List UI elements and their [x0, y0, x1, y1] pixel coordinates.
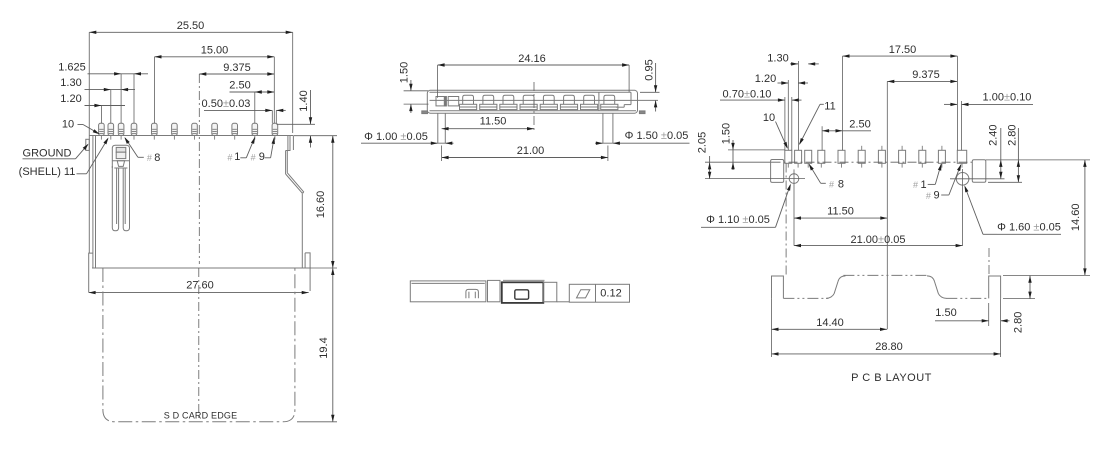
dim 28.80: [772, 298, 1001, 357]
PCB outline bottom-right: [946, 297, 988, 299]
solder pads row (PCB): [785, 146, 967, 168]
hole centerlines (phantom): [786, 164, 989, 277]
svg-text:0.95: 0.95: [643, 59, 655, 80]
svg-text:14.40: 14.40: [816, 317, 844, 329]
svg-text:2.05: 2.05: [696, 132, 708, 153]
dim 1.20 (front): [60, 93, 125, 107]
hole Φ1.10: [705, 169, 805, 245]
hole Φ1.60: [950, 169, 1005, 246]
dim 11.50 (side): [442, 115, 534, 130]
svg-text:19.4: 19.4: [318, 337, 330, 358]
svg-text:1.40: 1.40: [298, 90, 310, 111]
svg-text:21.00: 21.00: [517, 145, 545, 157]
side-view inner wall: [598, 92, 600, 111]
svg-text:9: 9: [259, 151, 265, 163]
svg-text:27.60: 27.60: [186, 280, 214, 292]
dim 2.50 (front): [229, 80, 274, 94]
svg-text:Φ 1.50 ±0.05: Φ 1.50 ±0.05: [625, 130, 689, 142]
svg-text:10: 10: [763, 112, 775, 124]
dim 2.80 (upper): [988, 124, 1022, 182]
PCB outline top edge: [843, 274, 928, 276]
dim 17.50: [843, 44, 958, 58]
label (SHELL) 11: [19, 138, 109, 179]
dim 2.80 (lower): [1003, 276, 1035, 333]
svg-text:(SHELL) 11: (SHELL) 11: [19, 166, 76, 178]
label S D CARD EDGE: [164, 411, 238, 421]
dim 1.20 (PCB): [755, 73, 808, 85]
svg-text:1: 1: [920, 179, 926, 191]
PCB outline right ramp: [927, 276, 947, 299]
svg-text:1.30: 1.30: [60, 77, 81, 89]
svg-text:GROUND: GROUND: [23, 148, 72, 160]
label #1 (PCB): [913, 164, 942, 191]
center line (front view): [198, 74, 201, 420]
label Φ1.60±0.05: [964, 185, 1061, 234]
svg-text:1.50: 1.50: [398, 62, 410, 83]
svg-text:17.50: 17.50: [889, 44, 917, 56]
side-view center line: [533, 82, 535, 132]
svg-text:9: 9: [933, 190, 939, 202]
svg-text:8: 8: [154, 152, 160, 164]
label 10 (front): [62, 118, 100, 134]
svg-text:0.50±0.03: 0.50±0.03: [202, 98, 251, 110]
svg-text:25.50: 25.50: [177, 20, 205, 32]
svg-text:2.80: 2.80: [1012, 312, 1024, 333]
dim 1.50 (side): [398, 62, 428, 113]
section piece (bold): [502, 280, 557, 303]
svg-text:2.80: 2.80: [1007, 124, 1019, 145]
svg-text:16.60: 16.60: [315, 191, 327, 219]
label #8 (PCB): [809, 164, 844, 191]
label Φ1.50±0.05: [595, 130, 690, 145]
svg-text:11.50: 11.50: [480, 115, 507, 127]
dim 19.4: [297, 268, 337, 422]
svg-text:2.50: 2.50: [849, 118, 870, 130]
svg-text:8: 8: [838, 179, 844, 191]
svg-text:9.375: 9.375: [223, 62, 251, 74]
svg-text:11: 11: [824, 101, 835, 113]
svg-text:1.30: 1.30: [767, 53, 788, 65]
PCB outline left block: [772, 276, 784, 298]
PCB outline left ramp: [826, 276, 846, 299]
left shell pad (PCB): [771, 160, 784, 183]
label #9 (PCB): [926, 164, 961, 202]
dim 25.50: [89, 20, 292, 133]
dim 14.40: [772, 298, 888, 333]
side-view feet: [422, 111, 645, 114]
svg-text:P C B LAYOUT: P C B LAYOUT: [851, 372, 932, 384]
dim 1.40: [277, 90, 316, 148]
dim 21.00±0.05: [794, 234, 963, 247]
svg-text:S D CARD EDGE: S D CARD EDGE: [164, 411, 238, 421]
right mounting tab: [305, 253, 310, 291]
label P C B LAYOUT: [851, 372, 932, 384]
svg-text:10: 10: [62, 118, 74, 130]
flatness tolerance frame: [569, 284, 629, 302]
PCB pad extension lines: [785, 56, 962, 329]
label 11 (PCB): [799, 101, 836, 145]
dim 16.60: [294, 136, 337, 268]
dim 14.60: [1003, 160, 1090, 276]
label GROUND: [23, 144, 89, 160]
side-view left contact block: [436, 97, 459, 106]
latch contact detail: [112, 147, 129, 168]
svg-text:24.16: 24.16: [518, 53, 546, 65]
dim 11.50 (PCB): [794, 205, 887, 220]
svg-text:21.00±0.05: 21.00±0.05: [851, 234, 906, 246]
svg-text:2.40: 2.40: [988, 124, 1000, 145]
PCB outline right block: [989, 276, 1001, 298]
label 10 (PCB): [763, 112, 788, 149]
dim 2.50 (PCB): [822, 118, 871, 132]
dim 1.50 (PCB bottom): [935, 303, 1010, 326]
dim 21.00: [442, 145, 608, 161]
dim 1.00±0.10: [944, 91, 1033, 106]
label #8 (front): [124, 137, 160, 164]
dim 15.00: [155, 45, 275, 59]
svg-text:1: 1: [234, 151, 240, 163]
dim 9.375 (PCB): [887, 69, 957, 83]
section window: [515, 290, 529, 299]
dim 0.95: [640, 59, 660, 111]
contact bumps (side view): [460, 95, 618, 109]
connector body outline (front view): [89, 32, 310, 268]
PCB outline bottom-left: [783, 297, 828, 299]
svg-text:1.20: 1.20: [60, 93, 81, 105]
dim 1.625: [58, 61, 148, 75]
staple detail: [466, 289, 479, 298]
card latch spring: [112, 145, 129, 231]
svg-text:28.80: 28.80: [875, 341, 903, 353]
svg-text:1.50: 1.50: [935, 307, 956, 319]
ground tab (left shell edge): [86, 139, 90, 150]
svg-text:1.625: 1.625: [58, 61, 86, 73]
shell flat pattern bar: [410, 281, 486, 302]
side-view internal right step: [616, 92, 631, 107]
dim 2.40: [988, 124, 1003, 178]
dim 1.50 (PCB left): [720, 123, 785, 170]
svg-text:Φ 1.60 ±0.05: Φ 1.60 ±0.05: [997, 222, 1061, 234]
label #1 (front): [227, 137, 255, 163]
svg-text:1.20: 1.20: [755, 73, 776, 85]
dim 1.30 (PCB): [767, 53, 819, 66]
dim 0.70±0.10: [720, 88, 802, 102]
label Φ1.10±0.05: [701, 184, 791, 228]
shell pad top extension: [986, 159, 1090, 161]
svg-text:Φ 1.00 ±0.05: Φ 1.00 ±0.05: [364, 131, 428, 143]
svg-text:1.00±0.10: 1.00±0.10: [983, 91, 1032, 103]
dim 27.60: [89, 280, 309, 295]
svg-text:2.50: 2.50: [229, 80, 250, 92]
flat pattern segment 2: [488, 280, 501, 301]
right leg (Φ1.50): [603, 113, 613, 143]
dim 1.30 (front): [60, 77, 135, 91]
contact pins 1-11 (front view): [99, 123, 278, 139]
pin extension lines: [101, 57, 276, 124]
svg-text:9.375: 9.375: [912, 69, 940, 81]
label #9 (front): [250, 137, 274, 163]
svg-text:Φ 1.10 ±0.05: Φ 1.10 ±0.05: [706, 214, 770, 226]
svg-text:0.70±0.10: 0.70±0.10: [723, 88, 772, 100]
baseline to frame: [557, 301, 570, 303]
svg-text:1.50: 1.50: [720, 123, 732, 144]
dim 9.375: [199, 62, 274, 76]
svg-text:14.60: 14.60: [1070, 204, 1082, 232]
label Φ1.00±0.05: [361, 131, 454, 145]
svg-text:0.12: 0.12: [600, 288, 621, 300]
dim 0.50±0.03: [202, 98, 286, 112]
dim 2.05: [696, 132, 711, 179]
side-view body outline: [427, 90, 658, 113]
SD card outline (phantom): [103, 268, 295, 422]
body right profile with step: [286, 136, 304, 269]
left mounting tab: [89, 253, 93, 292]
PCB pads centerline: [705, 161, 975, 163]
svg-text:11.50: 11.50: [827, 205, 854, 217]
left leg (Φ1.00): [438, 113, 446, 143]
svg-text:15.00: 15.00: [201, 45, 229, 57]
right shell pad (PCB): [972, 160, 986, 183]
dim 24.16: [438, 53, 629, 98]
